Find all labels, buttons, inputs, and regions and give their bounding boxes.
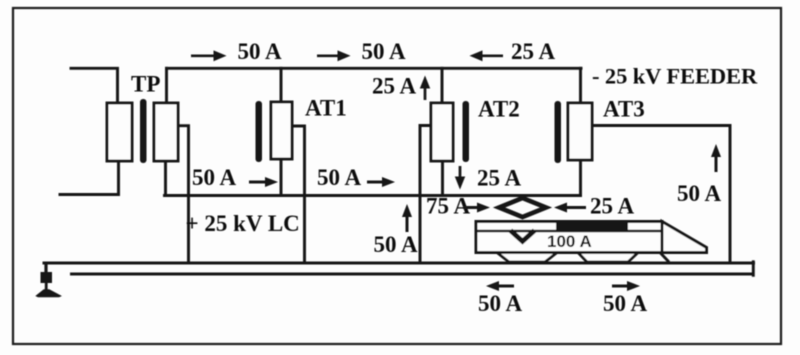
pantograph V on roof [511,231,535,242]
autotransformer AT3 core [555,101,562,163]
wire primary input stub [71,68,118,103]
arrow 25 A feeder right [470,39,556,64]
transformer TP secondary winding [154,103,178,161]
svg-text:50 A: 50 A [238,39,282,64]
arrow 25 A up at AT2 feeder [372,74,430,101]
svg-text:AT2: AT2 [478,97,520,122]
wire TP secondary top to feeder [165,68,168,103]
wire AT1 top to feeder [280,68,283,102]
svg-text:50 A: 50 A [603,291,647,316]
svg-text:50 A: 50 A [374,232,418,257]
arrow 50 A feeder left [191,39,282,64]
autotransformer AT3 winding [568,103,592,160]
autotransformer AT1 winding [271,102,292,159]
rail bottom line [72,273,753,276]
train roof band line [476,230,662,233]
train bogie 2 [578,253,638,263]
arrow 50 A rail right [603,281,647,316]
train roof black band [556,223,628,231]
svg-text:+ 25 kV LC: + 25 kV LC [186,211,300,236]
svg-text:AT3: AT3 [603,97,645,122]
arrow 25 A down below AT2 [455,166,522,191]
train nose [662,222,707,253]
transformer TP core [140,99,147,163]
svg-text:25 A: 25 A [372,74,416,99]
svg-text:50 A: 50 A [317,165,361,190]
wire AT2 top to feeder [441,68,444,103]
arrow 50 A catenary left [192,165,278,190]
autotransformer AT2 winding [431,103,453,161]
arrow 50 A up AT3 rail connection [677,144,721,206]
train pantograph diamond [499,198,546,217]
arrow 50 A up AT2 rail connection [374,204,418,257]
arrow 50 A catenary mid [317,165,395,190]
rail right end cap [752,262,755,276]
svg-text:25 A: 25 A [590,194,634,219]
svg-text:50 A: 50 A [362,39,406,64]
svg-text:100 A: 100 A [547,232,592,251]
arrow 75 A to pantograph [426,194,490,219]
rail top line [44,262,754,265]
wire catenary LC line (+25 kV) [165,194,581,197]
wire TP centre tap to rail [178,126,189,263]
wire AT1 centre tap to rail [292,126,305,263]
svg-text:50 A: 50 A [478,291,522,316]
wire AT2 bottom to catenary [441,161,444,196]
train bogie 1 [497,253,557,263]
svg-text:25 A: 25 A [511,39,555,64]
ground symbol [35,263,62,297]
wire AT1 bottom to catenary [280,159,283,196]
autotransformer AT2 core [463,101,470,162]
svg-text:50 A: 50 A [677,181,721,206]
svg-text:AT1: AT1 [305,96,347,121]
train body [476,222,662,253]
arrow 50 A feeder mid [317,39,406,64]
svg-text:25 A: 25 A [477,166,521,191]
arrow 25 A to pantograph from right [554,194,634,219]
arrow 50 A rail left [478,281,522,316]
wire feeder line (-25 kV) [167,67,582,70]
wire AT3 top to feeder [579,68,582,103]
train front skirt [660,253,669,263]
transformer TP primary winding [107,103,132,161]
svg-text:TP: TP [131,72,160,97]
svg-text:50 A: 50 A [192,165,236,190]
svg-text:- 25 kV FEEDER: - 25 kV FEEDER [592,64,758,89]
wire primary return [60,161,119,195]
wire TP secondary bottom to catenary [164,161,167,196]
wire AT3 bottom to catenary [579,160,582,196]
autotransformer AT1 core [256,101,263,162]
wire AT2 centre tap to rail [420,126,431,264]
wire AT3 centre tap to rail [592,126,730,264]
